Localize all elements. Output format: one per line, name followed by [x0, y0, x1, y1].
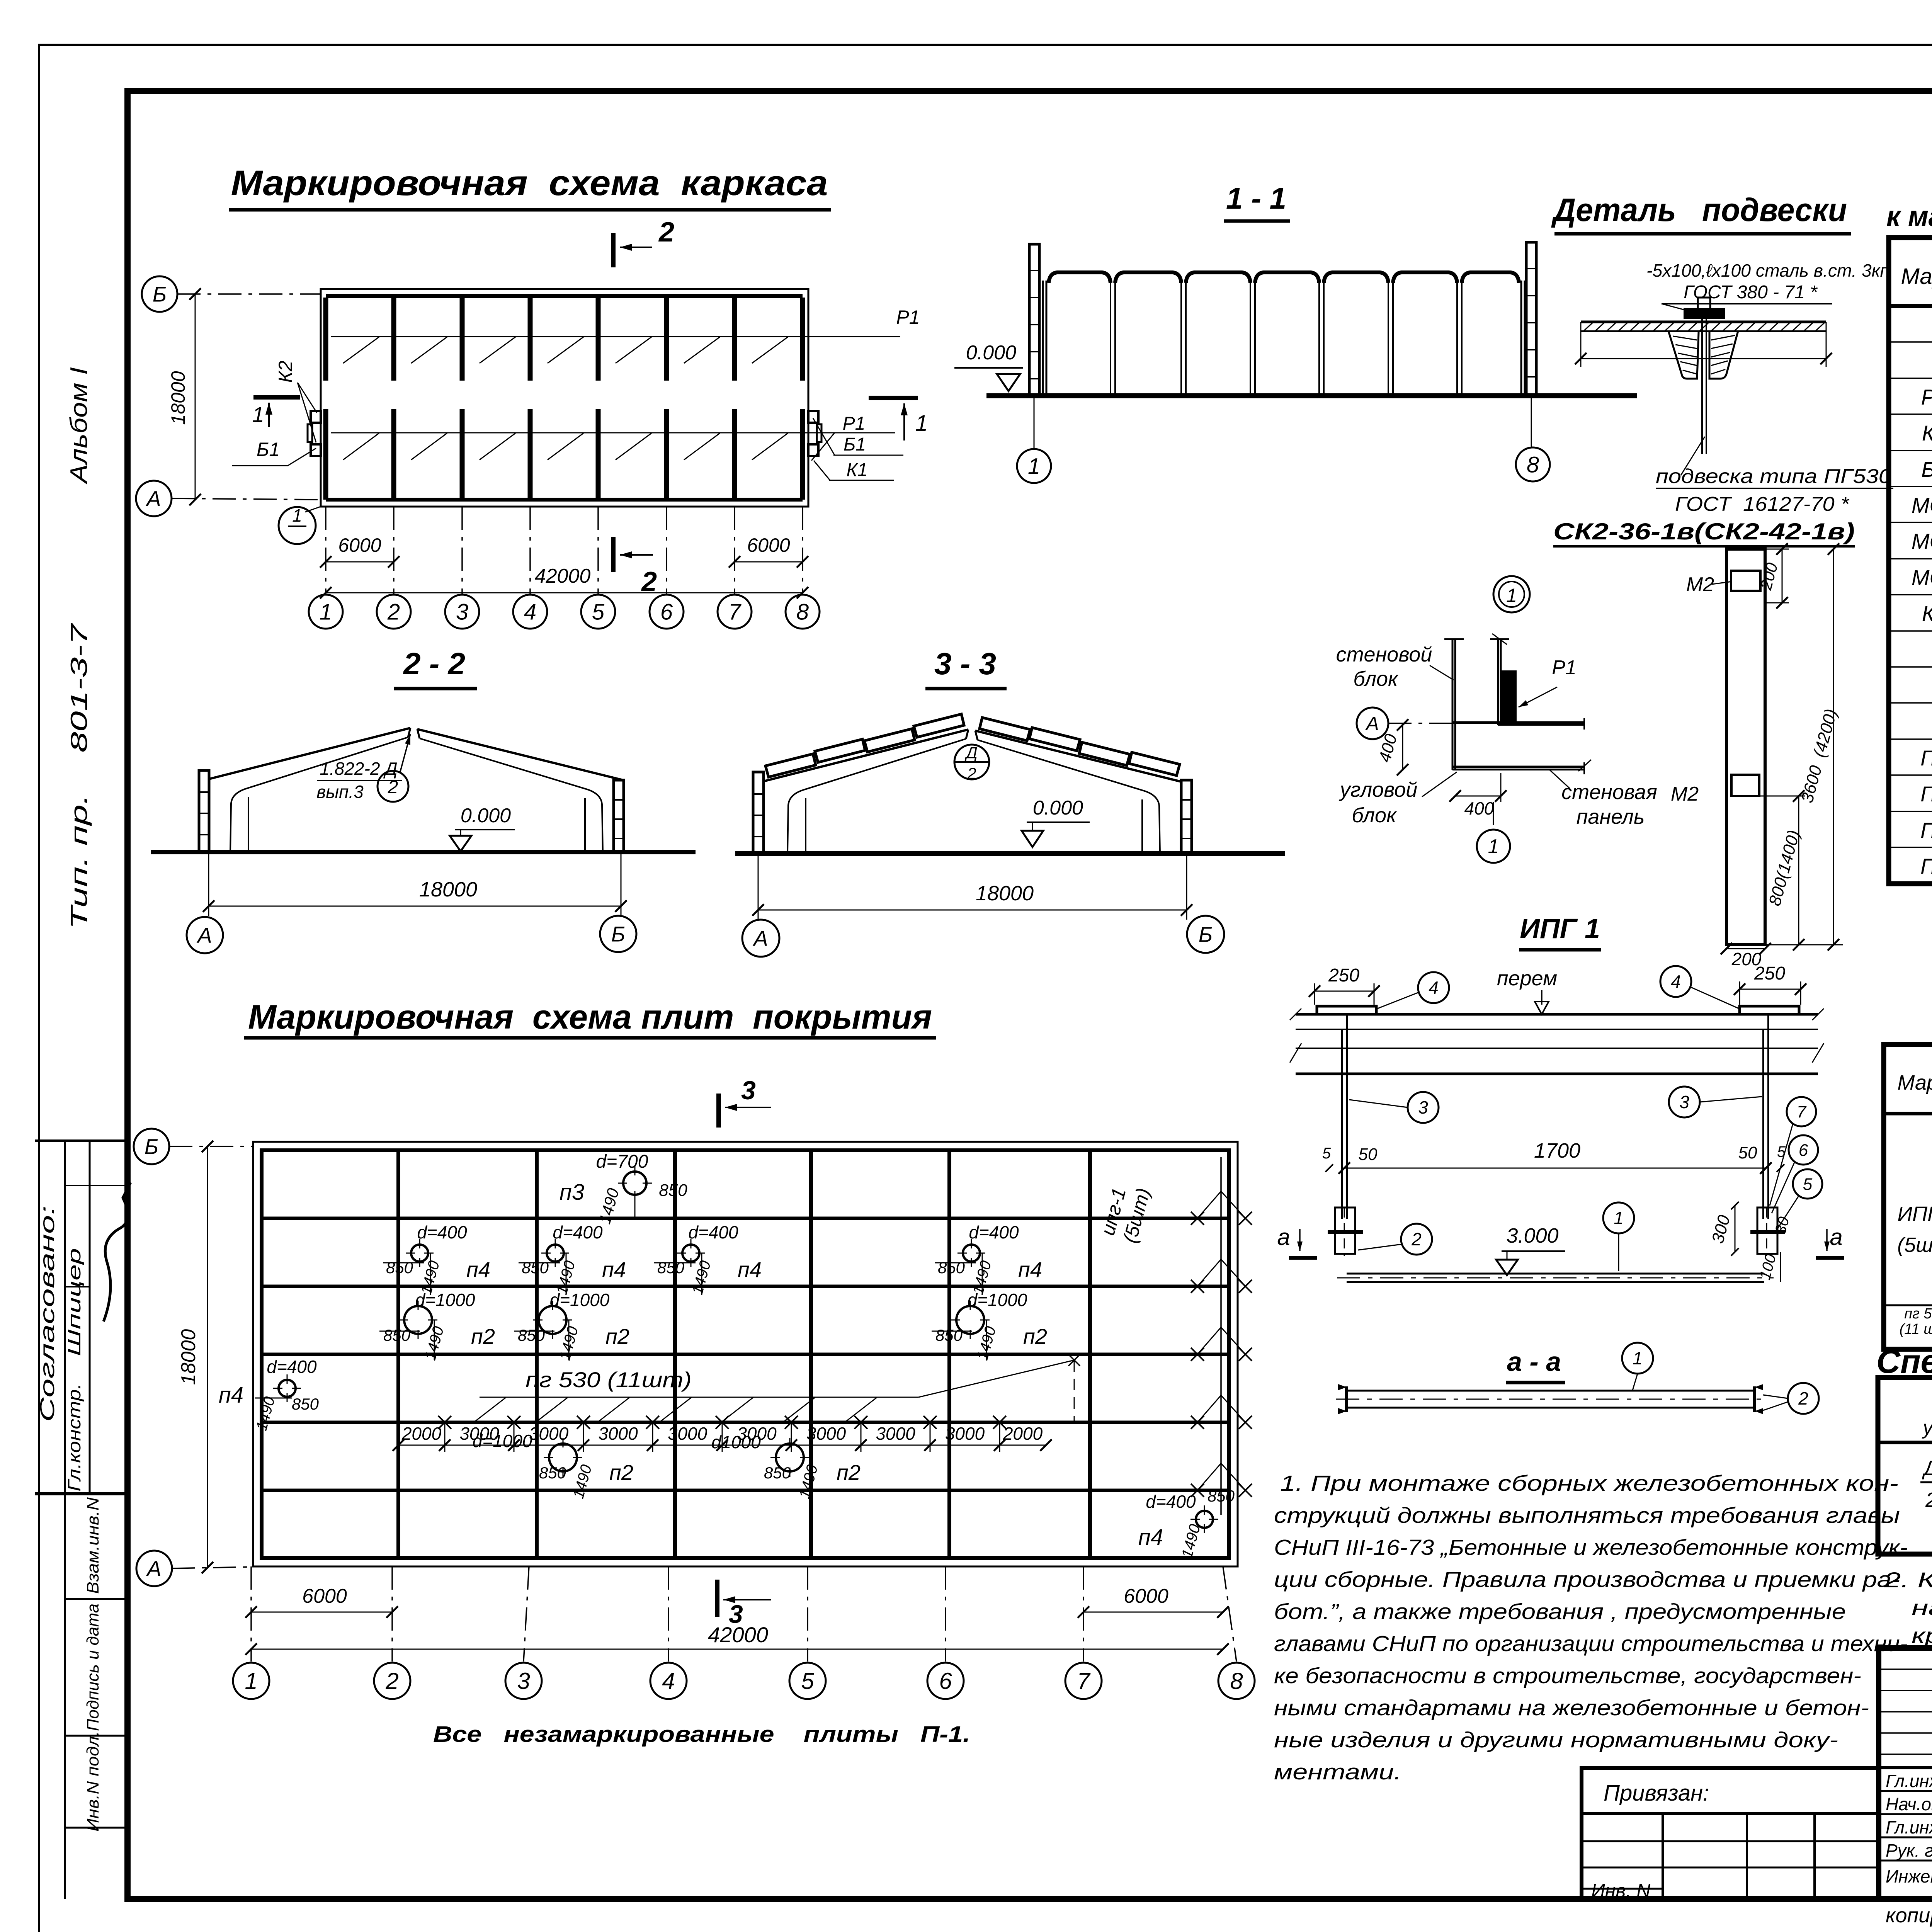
svg-text:Привязан:: Привязан: [1604, 1781, 1709, 1806]
margin box podpis i data [65, 1735, 128, 1737]
svg-text:3000: 3000 [806, 1423, 846, 1444]
svg-text:850: 850 [518, 1326, 545, 1344]
karkas plan frame lines P1 [323, 298, 328, 381]
IPG1 channel beam [1296, 1048, 1818, 1049]
left bearing plates B1 [311, 411, 321, 423]
hole P4 row4 left [279, 1380, 296, 1397]
1-1 right wall column [1526, 242, 1536, 396]
svg-text:3000: 3000 [668, 1423, 707, 1444]
section mark 1 right [869, 396, 918, 400]
section mark 3 top [716, 1094, 721, 1128]
svg-text:6000: 6000 [338, 534, 381, 556]
3-3 dim 18000 [758, 854, 759, 920]
svg-text:d=400: d=400 [1146, 1492, 1196, 1512]
IPG1 circle 4 left [1418, 972, 1449, 1003]
svg-text:1: 1 [245, 1668, 257, 1694]
svg-text:5: 5 [801, 1668, 814, 1694]
corner dim 400 horizontal [1455, 796, 1501, 797]
svg-text:блок: блок [1352, 804, 1397, 827]
svg-text:Инжен.: Инжен. [1886, 1866, 1932, 1886]
hanger rod [1701, 308, 1703, 454]
extent line with ticks [1580, 322, 1582, 367]
IPG1 bearing plates [1317, 1006, 1376, 1014]
2-2 right column [614, 780, 624, 852]
svg-text:7: 7 [728, 599, 742, 624]
IPG1 circle 3 right [1669, 1087, 1700, 1117]
svg-text:4: 4 [662, 1668, 675, 1694]
plates plan axis B [134, 1129, 169, 1164]
karkas plan rectangle [321, 289, 808, 507]
karkas plan lower P1 line [331, 432, 895, 434]
svg-text:4: 4 [524, 599, 536, 624]
svg-text:п2: п2 [605, 1324, 629, 1349]
IPG1 dim 250 left [1315, 991, 1374, 992]
svg-text:2: 2 [1798, 1388, 1808, 1408]
IPG1 circle 1 [1603, 1202, 1634, 1233]
svg-text:1.822-2 Д: 1.822-2 Д [320, 759, 397, 779]
M2 dim 200 top [1765, 549, 1789, 550]
svg-text:ные изделия и другими норматив: ные изделия и другими нормативными доку- [1274, 1728, 1838, 1752]
svg-text:Б: Б [1199, 922, 1213, 947]
svg-text:2: 2 [385, 1668, 398, 1694]
svg-text:ными стандартами на железобето: ными стандартами на железобетонные и бет… [1274, 1696, 1869, 1720]
svg-text:ции сборные. Правила производ: ции сборные. Правила производства и прие… [1274, 1567, 1900, 1592]
a-a circle 1 [1622, 1343, 1653, 1374]
svg-text:850: 850 [1207, 1487, 1235, 1505]
svg-text:ГОСТ 380 - 71 *: ГОСТ 380 - 71 * [1684, 282, 1818, 303]
M2 dim 3600(4200) [1765, 944, 1843, 946]
3-3 axis A [742, 920, 779, 957]
svg-text:Р1: Р1 [1552, 656, 1577, 679]
svg-text:п4: п4 [602, 1257, 626, 1282]
M2 top embed plate [1731, 571, 1760, 591]
IPG1 dim 1700 [1344, 1168, 1766, 1169]
svg-text:18000: 18000 [177, 1329, 200, 1385]
svg-text:Б: Б [611, 922, 625, 946]
svg-text:850: 850 [657, 1259, 685, 1277]
3-3 frame outline [764, 730, 968, 781]
svg-text:п4: п4 [1018, 1257, 1042, 1282]
svg-text:п4: п4 [1138, 1525, 1163, 1550]
2-2 axis A [187, 917, 223, 953]
3-3 roof slabs right slope [980, 718, 1030, 741]
svg-text:d=700: d=700 [596, 1151, 648, 1172]
M2 dim 200 bottom [1726, 948, 1765, 949]
svg-text:50: 50 [1359, 1145, 1378, 1164]
plates plan grid circles [250, 1566, 252, 1662]
svg-text:2: 2 [658, 217, 674, 248]
svg-text:п2: п2 [471, 1324, 495, 1349]
svg-text:МС2: МС2 [1912, 529, 1932, 553]
svg-text:Инв. N: Инв. N [1591, 1880, 1651, 1901]
holes P2 row5 [549, 1444, 577, 1471]
svg-text:3: 3 [1679, 1092, 1689, 1112]
svg-text:1: 1 [915, 411, 928, 436]
svg-text:Гл.инж.пр.: Гл.инж.пр. [1886, 1771, 1932, 1791]
svg-text:d=400: d=400 [969, 1222, 1019, 1242]
IPG1 left clamp [1335, 1207, 1355, 1254]
svg-text:2 - 2: 2 - 2 [403, 646, 465, 681]
svg-text:3: 3 [741, 1076, 756, 1105]
svg-text:Деталь подвески: Деталь подвески [1551, 192, 1847, 228]
1-1 ground line [986, 393, 1637, 398]
svg-text:7: 7 [1077, 1668, 1091, 1694]
svg-text:Подпись и дата: Подпись и дата [83, 1604, 102, 1731]
2-2 axis B [600, 916, 636, 952]
svg-text:к маркировочным схемам, распол: к маркировочным схемам, расположенным на… [1886, 200, 1932, 232]
svg-text:2000: 2000 [1003, 1423, 1043, 1444]
svg-text:Гл.инж.от: Гл.инж.от [1886, 1817, 1932, 1837]
corner node circle 1 bottom [1493, 802, 1494, 827]
svg-text:МС3: МС3 [1912, 565, 1932, 590]
margin box inv N podl [65, 1827, 128, 1829]
svg-text:d=1000: d=1000 [473, 1431, 532, 1451]
section mark 2 bottom [611, 537, 616, 572]
3-3 node D/2 circle [954, 745, 989, 779]
svg-text:Б: Б [153, 282, 167, 306]
corner dim 400 vertical [1402, 725, 1403, 770]
svg-text:d=400: d=400 [553, 1222, 603, 1242]
IPG1 top slab lines [1296, 1013, 1818, 1016]
svg-text:п4: п4 [219, 1383, 243, 1408]
grid circles 1-8 [325, 507, 327, 594]
svg-text:3: 3 [729, 1600, 743, 1628]
svg-text:Гл.констр.: Гл.констр. [64, 1383, 84, 1492]
svg-text:угловой: угловой [1338, 778, 1418, 801]
svg-text:П2: П2 [1920, 782, 1932, 806]
svg-text:1: 1 [292, 505, 302, 526]
svg-text:0.000: 0.000 [966, 342, 1016, 364]
svg-text:СНиП III-16-73 „Бетонные и жел: СНиП III-16-73 „Бетонные и железобетонны… [1274, 1535, 1908, 1560]
svg-text:1: 1 [1488, 835, 1499, 858]
svg-text:2000: 2000 [401, 1423, 442, 1444]
plates plan row lines [262, 1217, 1229, 1220]
IPG1 pipe [1347, 1273, 1764, 1275]
svg-text:ИПГ-1: ИПГ-1 [1897, 1202, 1932, 1226]
svg-text:2: 2 [1411, 1229, 1422, 1249]
2-2 frame outline [209, 728, 410, 779]
svg-text:3: 3 [1418, 1097, 1428, 1117]
svg-text:1: 1 [1614, 1208, 1624, 1228]
karkas plan upper P1 line [331, 336, 900, 337]
svg-text:СК2-36-1в(СК2-42-1в): СК2-36-1в(СК2-42-1в) [1553, 519, 1855, 544]
svg-text:400: 400 [1464, 798, 1494, 818]
svg-text:ИПГ 1: ИПГ 1 [1520, 913, 1600, 944]
svg-text:0.000: 0.000 [461, 804, 511, 827]
svg-text:850: 850 [292, 1395, 319, 1413]
IPG1 circles 7 6 5 [1787, 1097, 1816, 1126]
plates dim 6000 left [251, 1612, 392, 1613]
svg-text:А: А [752, 926, 768, 951]
svg-text:5: 5 [1322, 1145, 1331, 1162]
svg-text:Инв.N подл.: Инв.N подл. [83, 1731, 102, 1832]
svg-text:d=1000: d=1000 [415, 1290, 475, 1310]
svg-text:Р1: Р1 [1921, 385, 1932, 409]
svg-text:6: 6 [660, 599, 673, 624]
svg-text:ке безопасности в строительств: ке безопасности в строительстве, государ… [1274, 1663, 1861, 1688]
svg-text:d=1000: d=1000 [968, 1290, 1027, 1310]
svg-text:Маркировочная схема плит пок: Маркировочная схема плит покрытия [248, 998, 932, 1036]
svg-text:панель: панель [1577, 805, 1645, 828]
svg-text:перем: перем [1497, 967, 1557, 990]
svg-text:4: 4 [1671, 971, 1681, 992]
svg-text:2: 2 [1925, 1488, 1932, 1512]
svg-text:3 - 3: 3 - 3 [934, 646, 996, 681]
IPG1 right clamp [1757, 1207, 1777, 1254]
2-2 left column [199, 770, 209, 852]
svg-text:850: 850 [938, 1259, 965, 1277]
slab hatch [1583, 322, 1594, 331]
3-3 axis B [1187, 916, 1224, 953]
svg-text:6000: 6000 [747, 534, 790, 556]
M2 column [1726, 549, 1765, 945]
svg-text:6: 6 [1799, 1141, 1808, 1160]
svg-text:850: 850 [539, 1464, 566, 1482]
IPG1 circle 3 left [1408, 1092, 1439, 1123]
plates dim 42000 [251, 1649, 1223, 1650]
pg530 run line with hangers [480, 1397, 918, 1398]
svg-text:МС1: МС1 [1912, 493, 1932, 517]
svg-text:8: 8 [796, 599, 809, 624]
svg-text:крепления обрамления ворот.То: крепления обрамления ворот.То же для кол… [1912, 1623, 1932, 1648]
svg-text:наличием дополнительных заклад: наличием дополнительных закладных детале… [1912, 1595, 1932, 1620]
svg-text:(11 шт): (11 шт) [1900, 1321, 1932, 1337]
1-1 bay beams and columns [1049, 272, 1111, 283]
svg-text:3.000: 3.000 [1506, 1224, 1558, 1247]
IPG1 circle 2 [1401, 1224, 1432, 1255]
svg-text:Б1: Б1 [844, 434, 866, 455]
svg-text:6: 6 [939, 1668, 952, 1694]
svg-text:3: 3 [517, 1668, 530, 1694]
svg-text:5: 5 [592, 599, 605, 624]
svg-text:ментами.: ментами. [1274, 1760, 1401, 1784]
svg-text:d=400: d=400 [267, 1357, 317, 1377]
3-3 ground [735, 851, 1285, 856]
svg-text:а - а: а - а [1507, 1347, 1561, 1377]
svg-text:Р1: Р1 [896, 306, 920, 328]
svg-text:А: А [1365, 713, 1379, 735]
axis B circle [142, 276, 177, 312]
2-2 ground [151, 850, 696, 854]
IPG1 hanger rods [1341, 1029, 1343, 1219]
svg-text:850: 850 [764, 1464, 791, 1482]
svg-text:Тип. пр. 801-3-7: Тип. пр. 801-3-7 [66, 622, 92, 929]
svg-text:18000: 18000 [419, 878, 477, 901]
podveska label [1681, 437, 1705, 475]
svg-text:копир.: копир. [1886, 1904, 1932, 1927]
svg-text:Марка: Марка [1901, 264, 1932, 289]
svg-text:К1: К1 [847, 460, 868, 480]
svg-text:П3: П3 [1920, 818, 1932, 842]
svg-text:П4: П4 [1920, 854, 1932, 878]
svg-text:18000: 18000 [167, 371, 189, 425]
svg-text:Марка: Марка [1897, 1071, 1932, 1094]
svg-text:К2: К2 [1922, 601, 1932, 626]
holes P2 row3 [404, 1306, 432, 1334]
svg-text:Д: Д [964, 743, 978, 762]
privyazan table [1582, 1768, 1879, 1899]
3-3 left column [753, 772, 764, 854]
svg-text:струкций должны выполняться тр: струкций должны выполняться требования г… [1274, 1503, 1900, 1528]
svg-text:7: 7 [1797, 1102, 1807, 1121]
dim 6000 left [326, 561, 394, 563]
svg-text:250: 250 [1754, 963, 1785, 984]
svg-text:3: 3 [456, 599, 468, 624]
1-1 grid circle 8 [1531, 396, 1532, 447]
svg-text:Альбом I: Альбом I [66, 367, 92, 485]
dimension chain 2000/3000 [398, 1445, 1046, 1446]
corner axis A circle [1357, 707, 1388, 739]
2-2 dim 18000 [208, 852, 209, 916]
clamp plate [1685, 309, 1724, 318]
svg-text:Нач.отд.: Нач.отд. [1886, 1794, 1932, 1814]
svg-text:Рук. гр.: Рук. гр. [1886, 1840, 1932, 1861]
svg-text:6000: 6000 [302, 1585, 347, 1607]
svg-text:А: А [145, 486, 161, 511]
title block [1879, 1648, 1932, 1899]
svg-text:подвеска типа ПГ530: подвеска типа ПГ530 [1656, 465, 1891, 488]
section mark 1 left [253, 395, 300, 400]
svg-text:-5х100,ℓх100 сталь в.ст. 3кп: -5х100,ℓх100 сталь в.ст. 3кп [1646, 260, 1890, 281]
plates plan outer rect [253, 1142, 1238, 1566]
hole P3 [623, 1172, 646, 1195]
svg-text:1 - 1: 1 - 1 [1226, 181, 1286, 215]
dim 6000 right [735, 561, 803, 563]
right bearing plates [808, 411, 818, 423]
svg-text:А: А [196, 923, 212, 947]
svg-text:3000: 3000 [876, 1423, 915, 1444]
plates plan dim 18000 [207, 1146, 208, 1568]
svg-text:п3: п3 [560, 1180, 584, 1205]
svg-text:М2: М2 [1671, 783, 1699, 805]
svg-text:а: а [1830, 1224, 1842, 1250]
svg-text:3000: 3000 [598, 1423, 638, 1444]
svg-text:850: 850 [383, 1326, 411, 1344]
svg-text:главами СНиП по организации ст: главами СНиП по организации строительств… [1274, 1631, 1908, 1656]
svg-text:d=400: d=400 [688, 1222, 738, 1242]
1-1 grid circle 1 [1034, 396, 1035, 449]
svg-text:250: 250 [1328, 965, 1359, 986]
svg-text:Б1: Б1 [1921, 457, 1932, 481]
hole P4 bottom right [1196, 1511, 1213, 1528]
svg-text:42000: 42000 [535, 565, 591, 587]
corner detail walls [1452, 639, 1454, 770]
svg-text:2: 2 [387, 599, 400, 624]
svg-text:1: 1 [252, 402, 264, 427]
svg-text:Б1: Б1 [257, 439, 280, 460]
plates plan inner thick rect [262, 1150, 1229, 1558]
M2 lower embed plate [1731, 775, 1759, 796]
slab ribs [1668, 331, 1699, 379]
plates plan axis A [136, 1551, 172, 1586]
svg-text:Шпицер: Шпицер [64, 1248, 84, 1356]
svg-text:стеновой: стеновой [1336, 643, 1432, 666]
3-3 right column [1181, 780, 1192, 854]
svg-text:пг 530: пг 530 [1904, 1306, 1932, 1322]
svg-text:8: 8 [1230, 1668, 1243, 1694]
svg-text:8: 8 [1527, 452, 1539, 477]
title block left signature rows [1879, 1668, 1932, 1670]
a-a circle 2 [1788, 1383, 1819, 1414]
svg-text:стеновая: стеновая [1561, 781, 1657, 804]
1-1 left wall column [1029, 244, 1039, 396]
svg-text:1: 1 [1028, 454, 1040, 479]
svg-text:(5шт): (5шт) [1897, 1233, 1932, 1257]
section mark 2 top [611, 233, 616, 267]
IPG1 dims 300 100 30 [1735, 1206, 1736, 1252]
svg-text:вып.3: вып.3 [316, 782, 364, 802]
soglasovano signature [104, 1182, 131, 1321]
IPG-1 hanger axis on grid 8 [1220, 1157, 1222, 1515]
detail circle 1 bottom left [279, 507, 316, 544]
svg-text:К1: К1 [1922, 421, 1932, 445]
svg-text:d1000: d1000 [711, 1432, 761, 1452]
svg-text:блок: блок [1353, 667, 1399, 690]
svg-text:Взам.инв.N: Взам.инв.N [83, 1497, 102, 1594]
nodes spec table [1878, 1378, 1932, 1554]
plates plan grid verticals [396, 1150, 400, 1558]
slab top lines [1581, 321, 1826, 323]
a-a pipe [1347, 1390, 1755, 1392]
svg-text:850: 850 [386, 1259, 413, 1277]
IPG1 dim 250 right [1740, 989, 1801, 990]
holes P4 row2 [411, 1245, 428, 1262]
M2 dim 800(1400) [1759, 796, 1805, 797]
svg-text:п2: п2 [837, 1460, 861, 1485]
svg-text:Спецификация узлов к маркирово: Спецификация узлов к маркировочным схема… [1876, 1343, 1932, 1380]
svg-text:ГОСТ 16127-70 *: ГОСТ 16127-70 * [1675, 493, 1850, 515]
svg-text:18000: 18000 [976, 882, 1034, 905]
svg-text:К2: К2 [275, 361, 296, 383]
svg-text:2: 2 [388, 777, 398, 798]
dim 42000 [326, 592, 803, 594]
svg-text:узла: узла [1922, 1417, 1932, 1439]
svg-text:Все незамаркированные пли: Все незамаркированные плиты П-1. [433, 1722, 970, 1747]
svg-text:Б: Б [145, 1134, 158, 1159]
svg-text:d=400: d=400 [417, 1222, 467, 1242]
svg-text:2: 2 [967, 764, 976, 782]
svg-text:Согласовано:: Согласовано: [36, 1206, 59, 1422]
svg-text:п2: п2 [1023, 1324, 1047, 1349]
svg-text:6000: 6000 [1124, 1585, 1168, 1607]
svg-text:Р1: Р1 [843, 413, 866, 434]
3-3 roof slabs left slope [765, 754, 816, 777]
steel spec table [1884, 1044, 1932, 1349]
dim 18000 vertical [195, 294, 196, 500]
svg-text:0.000: 0.000 [1033, 797, 1083, 819]
soglasovano block [35, 1139, 128, 1142]
spec elements table [1889, 238, 1932, 884]
plates dim 6000 right [1083, 1612, 1223, 1613]
svg-text:А: А [146, 1556, 161, 1581]
P1 column black section [1500, 670, 1517, 722]
svg-text:5: 5 [1803, 1175, 1813, 1194]
corner detail circle 1 [1493, 576, 1530, 612]
svg-text:п2: п2 [609, 1460, 633, 1485]
margin box vzam inv [65, 1598, 128, 1600]
svg-text:1: 1 [1506, 585, 1517, 606]
svg-text:М2: М2 [1686, 573, 1714, 596]
svg-text:а: а [1277, 1224, 1290, 1250]
IPG1 circle 4 right [1660, 966, 1691, 997]
svg-text:П1: П1 [1920, 746, 1932, 770]
svg-text:850: 850 [659, 1181, 687, 1200]
svg-text:1: 1 [320, 599, 332, 624]
svg-text:бот.”, а также требования , пр: бот.”, а также требования , предусмотрен… [1274, 1599, 1846, 1624]
svg-text:50: 50 [1738, 1143, 1757, 1162]
svg-text:d=1000: d=1000 [550, 1290, 610, 1310]
svg-text:1: 1 [1633, 1348, 1643, 1368]
